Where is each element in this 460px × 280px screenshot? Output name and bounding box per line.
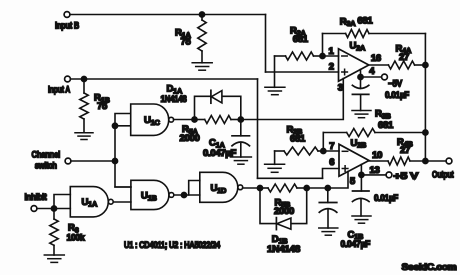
U2B minus sign [342,150,347,152]
ground under R6 [44,255,64,262]
svg-text:Input B: Input B [55,20,79,31]
resistor R4A [388,61,414,69]
gate U1B (NAND) [131,180,169,209]
node R1A tap junction [199,12,204,17]
resistor R4B [388,157,410,165]
ground under U2B bypass cap [352,216,371,223]
wire feedback B riser [322,133,324,152]
wire U1D tied input loop [189,181,200,196]
diode D1A [210,90,212,103]
terminal +5V [386,172,392,178]
node U1C input junction [112,123,117,128]
svg-text:U1 : CD4011; U2 : HA5022/24: U1 : CD4011; U2 : HA5022/24 [124,240,221,251]
node U2B inverting input junction [321,148,326,153]
svg-text:10: 10 [372,150,382,161]
wire U1B upper input from channel [115,186,131,188]
resistor R1A [198,20,206,51]
terminal Output [446,158,452,164]
node pin 13 junction [359,172,364,177]
svg-text:681: 681 [378,120,394,131]
resistor R2B [284,147,318,155]
svg-text:+5 V: +5 V [394,171,420,182]
node R5A left junction [192,117,197,122]
wire U1A upper input branch [54,195,70,209]
svg-text:16: 16 [371,53,381,64]
wire R5A node to U2A pin 3 [241,79,343,120]
capacitor C1B [327,188,329,203]
op-amp U2A [339,49,369,81]
U2B plus sign [342,166,348,172]
wire U1B output to U1D [174,194,200,196]
wire R5B node to pin 5 [307,172,348,189]
svg-text:U1B: U1B [141,191,157,203]
node output junction [423,158,428,163]
node U2A inverting input junction [320,53,325,58]
node inhibit junction [51,206,56,211]
wire output bus [424,34,426,162]
resistor R6 [50,219,58,245]
terminal Input A [65,76,71,82]
node pin 4 junction [358,74,363,79]
U2A minus sign [342,55,347,57]
svg-text:6: 6 [329,157,334,168]
wire U2B output [369,160,388,162]
wire Inhibit to U1A lower input [37,208,70,210]
terminal -5V [382,74,388,80]
U2A plus sign [342,69,348,75]
resistor R3B [347,129,375,137]
resistor R3A [346,30,369,38]
wire to U2A pin 1 [323,55,339,57]
svg-text:R3A: R3A [340,16,356,28]
terminal Channel switch [65,158,71,164]
svg-text:−5V: −5V [388,79,403,90]
wire Input A lower run [258,177,323,179]
capacitor C1A [240,120,242,136]
ground under C1A [230,157,251,164]
wire D1A bypass loop [195,96,241,119]
svg-text:R3B: R3B [375,109,391,121]
svg-text:U1A: U1A [82,197,98,209]
svg-text:Inhibit: Inhibit [25,192,48,203]
svg-text:Input A: Input A [48,85,70,96]
resistor R5A [205,116,231,124]
ground under R1A [192,63,212,70]
node feedback B bus junction [423,130,428,135]
svg-text:3: 3 [338,83,343,94]
wire U1A output to U1B input [113,201,130,203]
wire R2A to ground [274,56,276,87]
svg-text:75: 75 [181,37,192,48]
svg-text:0.047µF: 0.047µF [341,239,371,250]
diode D1B [275,218,277,230]
svg-text:0.01µF: 0.01µF [374,193,398,204]
ground under U2A bypass cap [352,111,371,118]
wire to U2B pin 7 [323,150,339,152]
terminal Inhibit [31,206,37,212]
svg-text:1N4148: 1N4148 [267,244,300,255]
wire U1D output [243,187,260,189]
terminal Input B [64,12,70,18]
wire U2A pin 4 stub [360,70,362,78]
node channel junction [112,158,117,163]
svg-text:U1D: U1D [211,183,227,195]
svg-text:2000: 2000 [274,206,294,217]
svg-text:4: 4 [369,66,375,77]
wire feedback A riser [322,34,324,57]
wire Input A vertical drop [257,79,259,178]
wire pin 13 to +5V terminal [361,174,386,176]
node output bus top junction [423,62,428,67]
capacitor 0.01uF at U2B [360,175,362,191]
wire Input B to U2A pin 2 [266,71,339,73]
wire Input A horizontal [70,78,257,80]
wire Input B horizontal [70,14,266,16]
svg-text:U2B: U2B [351,138,367,150]
svg-text:681: 681 [357,16,373,27]
op-amp U2B [339,144,369,176]
node R5A right junction [238,117,243,122]
wire Channel switch horizontal [71,160,115,162]
wire U2B pin 13 stub [360,165,362,175]
ground under R1B [75,133,93,140]
resistor R5B [268,184,297,192]
svg-text:2000: 2000 [180,133,200,144]
wire D1B bypass loop [260,188,307,224]
ground at R2B [265,164,285,172]
svg-text:5: 5 [350,176,356,187]
svg-text:SeekIC.com: SeekIC.com [402,262,457,273]
node R5B right junction [304,185,309,190]
svg-text:2: 2 [329,61,334,72]
ground at R2A [265,87,285,94]
svg-text:681: 681 [293,34,309,45]
wire U2A output [369,64,389,66]
svg-text:1N4148: 1N4148 [161,94,187,105]
svg-text:100k: 100k [67,233,86,244]
wire jog up to U2B pin 6 [323,169,340,179]
wire pin 4 to -5V terminal [361,76,382,78]
resistor R1B [80,93,88,119]
wire U1C output [174,119,195,121]
svg-text:U2A: U2A [350,41,366,53]
node R1B tap junction [81,76,86,81]
svg-text:681: 681 [290,133,306,144]
ground under C1B [319,228,338,235]
node U1B output junction [181,192,186,197]
svg-text:switch: switch [35,160,57,171]
resistor R2A [286,52,314,60]
capacitor 0.01uF at U2A [360,77,362,89]
svg-text:U1C: U1C [144,115,160,127]
svg-text:Output: Output [432,169,454,180]
gate U1D (NAND) [200,172,238,202]
node C1B junction [325,185,330,190]
wire R2B to ground [274,151,276,164]
svg-text:27: 27 [399,52,409,63]
wire Input B vertical drop [265,15,267,73]
svg-text:75: 75 [97,101,108,112]
gate U1A (NAND) [70,187,108,217]
svg-text:0.01µF: 0.01µF [385,90,409,101]
svg-text:27: 27 [400,145,410,156]
wire to output terminal [425,160,446,162]
svg-text:7: 7 [329,141,334,152]
gate U1C (NAND) [131,104,169,135]
svg-text:Channel: Channel [32,150,61,161]
node R5B left junction [257,185,262,190]
wire U1C tied inputs [115,114,131,188]
